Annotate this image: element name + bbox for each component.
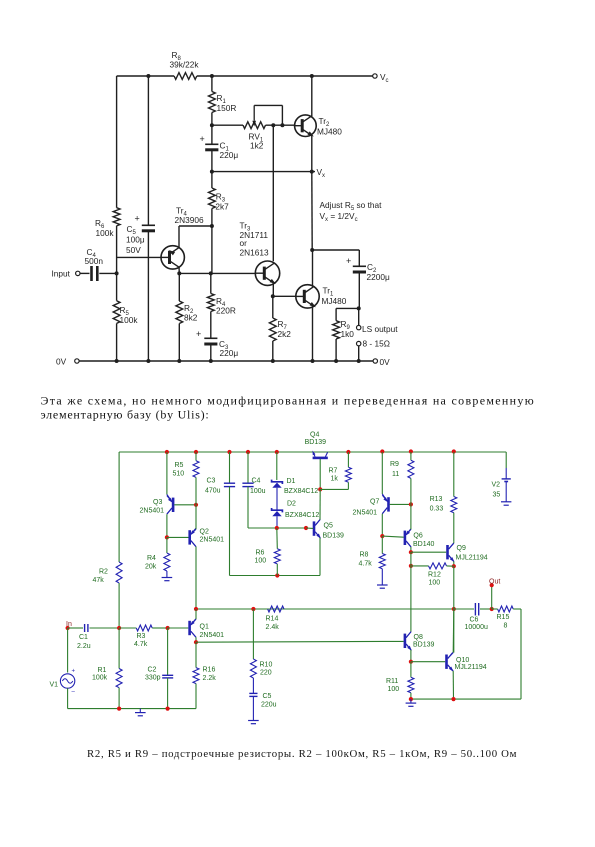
svg-text:R13: R13 [430,496,443,503]
wire: left rail R6 to input node [116,226,118,301]
capacitor C3 220u [210,312,212,338]
node: R5 top junction [194,450,198,454]
zener D2 BZX84C12 [272,508,283,512]
potentiometer RV1 1k2 [243,122,266,129]
transistor Tr2 MJ480 [295,115,317,137]
svg-text:C1: C1 [79,634,88,641]
node: R3/C2/Q1-base junction [166,626,170,630]
resistor R13 0.33 [453,452,455,497]
svg-text:100: 100 [388,686,400,693]
svg-text:Input: Input [52,269,71,279]
resistor R4 220R [210,273,212,293]
wire: R1 vertical [211,76,213,92]
wire: Tr1 collector up to Vx line [312,250,314,287]
svg-text:R11: R11 [386,678,398,685]
terminal LS output - [357,341,361,345]
svg-text:MJL21194: MJL21194 [456,555,488,562]
svg-text:470u: 470u [205,488,221,495]
node: R9 bottom / Q7 base / Q6 emitter [409,502,413,506]
svg-text:BZX84C12: BZX84C12 [284,488,318,495]
wire: Vx rail [212,171,315,173]
svg-text:элементарную базу (by Ulis):: элементарную базу (by Ulis): [41,407,210,421]
node: RV1/Tr2-base junction [280,123,284,127]
terminal 0V left [75,359,79,363]
node: Q1 collector junction [194,607,198,611]
svg-text:R15: R15 [497,614,510,621]
wire: Q5 emitter down to rail [319,538,321,576]
svg-text:Q2: Q2 [200,529,209,536]
svg-text:2N5401: 2N5401 [140,508,165,515]
source V1 sine [67,628,69,673]
wire: left rail R5 to 0V [116,323,118,361]
node: D1 top junction [275,450,279,454]
wire: Q7 base to R9 node [390,503,411,505]
svg-text:MJL21194: MJL21194 [455,664,487,671]
wire: C4 bottom to D2 rail [248,527,306,529]
resistor R5 510 (trimmer) [195,452,197,461]
node: R1/R2/C1 junction [117,626,121,630]
wire: C4 to input node [99,272,116,274]
svg-text:11: 11 [392,471,399,478]
svg-text:4.7k: 4.7k [359,561,373,568]
wire: Tr4 emitter up and right [178,226,180,248]
node: C2/R9/LS junction [357,306,361,310]
transistor Q5 BD139 [313,521,316,535]
wire: Q6 collector to Q9 base node [410,547,412,552]
wire: Q1 collector up [195,609,197,619]
transistor Q9 MJL21194 [446,545,449,559]
svg-text:MJ480: MJ480 [317,127,342,137]
svg-text:R1: R1 [98,667,107,674]
svg-text:1k2: 1k2 [250,141,264,151]
svg-text:2200μ: 2200μ [367,272,390,282]
node: Tr1 emitter junction [311,359,315,363]
svg-text:C2: C2 [148,667,157,674]
node: R2 bottom junction [177,359,181,363]
resistor R1 100k [118,628,120,669]
capacitor C2 330p [167,628,169,675]
terminal LS output + [357,325,361,329]
svg-text:4.7k: 4.7k [134,641,148,648]
ground below bottom-left rail [139,709,141,713]
svg-text:2N5401: 2N5401 [200,537,225,544]
svg-text:V2: V2 [492,482,501,489]
svg-text:R12: R12 [428,572,441,579]
svg-text:330p: 330p [145,675,161,682]
wire: LS output lower lead [358,346,360,361]
svg-text:0V: 0V [56,357,67,367]
wire: Q2 collector down to Q1 collector node [195,547,197,609]
svg-text:0V: 0V [380,357,391,367]
wire: Vc top rail [117,75,175,77]
svg-text:Vc: Vc [380,72,389,84]
svg-text:Vx: Vx [317,167,326,179]
wire: bottom-left ground rail [68,708,196,710]
wire: RV1 left lead [212,124,243,126]
wire: Q1 emitter down [195,637,197,642]
wire: Q10 collector up to output node [452,609,455,653]
wire: Tr1 base line [273,295,296,297]
resistor R14 2.4k [268,606,284,612]
svg-text:100: 100 [255,558,267,565]
wire: top rail corner to V2 [505,452,507,468]
wire: R15 wrap to bottom rail [520,609,522,699]
svg-text:D1: D1 [287,478,296,485]
node: R4 top junction [209,271,213,275]
node: In corner [66,626,70,630]
svg-text:Q5: Q5 [324,523,333,530]
wire: Tr4 base line [117,256,162,258]
svg-text:+: + [196,329,201,339]
wire: Tr3 emitter to node [272,283,274,296]
svg-text:47k: 47k [93,577,105,584]
node: RV1/Tr3-collector junction [271,123,275,127]
resistor R2 8k2 [178,273,180,301]
resistor R3 2k7 [211,172,213,188]
svg-text:Q6: Q6 [413,532,422,539]
ground below R11 [410,699,412,703]
svg-text:8: 8 [504,623,508,630]
svg-text:Q1: Q1 [200,624,209,631]
svg-text:100μ: 100μ [126,235,145,245]
node: Q3 emitter rail junction [165,450,169,454]
zener D1 BZX84C12 [272,480,283,484]
wire: Q4 base stub [319,459,321,490]
transistor Tr4 2N3906 [161,246,184,269]
wire: Q3 emitter drop [166,452,168,495]
wire: Q3 base to R5 node [174,504,196,506]
svg-text:Эта же схема, но немного модиф: Эта же схема, но немного модифицированна… [41,393,535,407]
svg-text:R5: R5 [175,462,184,469]
capacitor C5 220u [252,678,254,693]
wire: R9 top lead [336,307,359,309]
node: C2 bottom junction [166,707,170,711]
capacitor C3 470u [229,452,231,483]
node: LS- junction [357,359,361,363]
svg-text:BD139: BD139 [413,642,435,649]
node: R7 top junction [346,450,350,454]
node: Q7 emitter rail junction [380,449,384,453]
svg-text:BZX84C12: BZX84C12 [285,512,319,519]
node: Tr2 collector junction [310,74,314,78]
svg-text:35: 35 [493,492,501,499]
wire: Q8 base row [196,640,404,643]
wire: Q3 collector to Q2 base node [166,514,168,537]
svg-text:50V: 50V [126,245,141,255]
node: R9 top junction [409,449,413,453]
ground below V2 [501,501,511,503]
transistor Q8 BD139 [404,634,407,648]
resistor R15 8 [498,606,514,612]
svg-text:R2, R5 и R9 – подстроечные рез: R2, R5 и R9 – подстроечные резисторы. R2… [87,748,517,760]
svg-text:2k2: 2k2 [278,329,292,339]
svg-text:220μ: 220μ [220,348,239,358]
svg-text:R10: R10 [260,662,273,669]
resistor R12 100 [411,565,429,567]
node: R13 top junction [452,449,456,453]
node: C4 top junction [246,450,250,454]
svg-text:2N5401: 2N5401 [200,632,225,639]
node: Q1 emitter / R16 / Q8 base row [194,640,198,644]
resistor R6 100 [276,528,279,549]
wire: to Q1 base [168,627,189,629]
resistor R6 100k [113,208,120,226]
svg-text:220μ: 220μ [220,150,239,160]
terminal input [76,271,80,275]
node: R9 bottom junction [334,359,338,363]
wire: input to C4 [80,272,90,274]
transistor Q7 2N5401 [387,497,390,511]
svg-text:R8: R8 [360,552,369,559]
capacitor C1 220u [211,125,213,143]
capacitor C2 2200u [353,265,366,267]
svg-text:2.2k: 2.2k [203,675,217,682]
wire: R12 node down to Q8 collector [410,566,412,632]
svg-text:510: 510 [173,471,185,478]
wire: 0V bottom rail [79,360,373,362]
wire: Tr4 collector to node [178,267,180,274]
svg-text:Q4: Q4 [310,432,319,439]
resistor R9 1k0 [335,308,337,320]
node: C3 bottom junction [209,359,213,363]
svg-text:D2: D2 [287,501,296,508]
capacitor C5 100u 50V [142,224,155,226]
wire: C2 bottom to LS node [358,272,360,308]
capacitor C1 2.2u [84,624,86,632]
svg-text:20k: 20k [145,564,157,571]
wire: Out stub [491,586,493,609]
svg-text:R3: R3 [137,633,146,640]
svg-text:BD140: BD140 [413,541,435,548]
wire: LS output upper lead [358,308,360,325]
node: Out junction [490,607,494,611]
wire: Q10 emitter down [452,671,454,699]
node: R1 top junction [210,74,214,78]
wire: RV1 to Tr3 collector [272,125,274,261]
svg-text:Q7: Q7 [370,499,379,506]
capacitor C4 500n [90,266,93,281]
wire: R2 to In row [118,583,120,628]
node: Vx left junction [210,170,214,174]
node: R5 bottom junction [115,359,119,363]
transistor Q10 MJL21194 [445,655,448,669]
wire: Tr2 emitter to Vx rail [311,135,313,172]
svg-text:150R: 150R [217,103,237,113]
wire: Tr4 collector node to Tr3 base [179,272,255,274]
svg-text:Q3: Q3 [153,499,162,506]
svg-text:LS output: LS output [362,324,398,334]
transistor Q6 BD140 [404,531,407,545]
node: R5 bottom / Q3 base / Q2 emitter [194,503,198,507]
wire: V1 bottom to rail [67,688,69,708]
node: R3/Tr4-emitter junction [210,224,214,228]
svg-text:R4: R4 [147,555,156,562]
svg-text:R6: R6 [256,550,265,557]
node: Q8 emitter / R11 / Q10 base [409,660,413,664]
svg-text:100k: 100k [92,675,108,682]
svg-text:2.2u: 2.2u [77,643,91,650]
resistor R11 100 [410,662,412,678]
wire: Q5 collector up to Q4 base node [319,489,321,519]
node: D2 bottom junction [275,526,279,530]
svg-text:39k/22k: 39k/22k [170,60,200,70]
battery V2 35 [505,468,507,479]
node: C5 bottom junction [146,359,150,363]
resistor R7 1k [347,452,349,467]
svg-text:C5: C5 [263,693,272,700]
svg-text:–: – [72,690,76,696]
svg-text:+: + [135,214,140,224]
wire: In row left [68,627,83,629]
node: C5 rail top junction [146,74,150,78]
svg-text:2N3906: 2N3906 [175,215,204,225]
wire: Q10 base row [411,661,445,663]
svg-text:R2: R2 [99,569,108,576]
wire: Q9 base node to R12 node [410,552,412,566]
capacitor C6 10000u [454,608,474,610]
svg-text:Q9: Q9 [457,545,466,552]
svg-text:R7: R7 [329,468,338,475]
svg-text:8 - 15Ω: 8 - 15Ω [363,339,390,349]
svg-text:MJ480: MJ480 [322,296,347,306]
svg-text:2k7: 2k7 [215,202,229,212]
node: Q6 collector / Q9 base junction [409,550,413,554]
wire: R3 node down to R4 node [211,226,213,273]
svg-text:100k: 100k [120,315,139,325]
resistor R3 4.7k [119,627,136,629]
capacitor C4 100u [247,452,249,483]
svg-text:+: + [72,669,76,675]
svg-text:1k: 1k [331,476,339,483]
svg-text:Out: Out [489,579,500,586]
transistor Q3 2N5401 [172,498,175,512]
wire: Q7 emitter drop [381,452,383,494]
svg-text:C6: C6 [470,617,479,624]
svg-text:or: or [240,238,248,248]
terminal 0V right [373,359,377,363]
svg-text:220: 220 [260,670,272,677]
wire: left rail down to R2 [118,452,120,562]
svg-text:8k2: 8k2 [184,313,198,323]
ground below R4 [166,571,168,574]
node: R11 bottom junction [409,697,413,701]
node: Tr3-emitter/R7/Tr1-base junction [271,294,275,298]
svg-text:2N5401: 2N5401 [353,510,378,517]
svg-text:V1: V1 [50,682,59,689]
node: Q3 collector / Q2 base / R4 junction [165,535,169,539]
svg-text:+: + [200,134,205,144]
wire: Q7 collector down to Q6 base node [381,514,383,536]
svg-text:100k: 100k [96,228,115,238]
resistor R8 4.7k [381,536,383,553]
node: Q10 emitter junction [451,697,455,701]
svg-text:220u: 220u [261,702,277,709]
node: Tr4 collector junction [177,271,181,275]
resistor R8 39k/22k [174,73,197,80]
node: R12 left junction [409,564,413,568]
transistor Q1 2N5401 [188,621,191,635]
wire: D1 to D2 [276,488,278,510]
svg-text:100u: 100u [250,488,266,495]
resistor R2 47k (trimmer) [116,562,122,583]
svg-text:BD139: BD139 [305,439,327,446]
wire: C2 branch top [312,249,359,251]
wire: Q9 emitter to R12 node [453,561,455,566]
svg-text:1k0: 1k0 [341,329,355,339]
svg-text:2.4k: 2.4k [266,624,280,631]
node: Q9em/Q10col/output junction [452,607,456,611]
resistor R1 150R [209,92,216,113]
node: Out marker [490,583,494,587]
wire: C3/R6/Q5 emitter rail [230,575,321,577]
wire: R7 bottom to Q4 base node [320,488,348,490]
wire: RV1 right lead [266,124,295,126]
transistor Tr1 MJ480 [296,285,319,308]
svg-text:C3: C3 [207,478,216,485]
node: R1 bottom junction [117,707,121,711]
transistor Q4 BD139 [313,457,328,460]
wire: RV1 wiper loop [254,104,282,106]
svg-text:0.33: 0.33 [430,506,444,513]
resistor R7 2k2 [272,296,274,318]
svg-text:Vx = 1/2Vc: Vx = 1/2Vc [320,211,358,223]
svg-text:100: 100 [429,580,441,587]
wire: Q6 emitter up to R9 node [410,504,412,529]
node: R1/C1/RV1 junction [210,123,214,127]
svg-text:R9: R9 [390,461,399,468]
terminal Vc [373,74,377,78]
transistor Tr3 2N1711/2N1613 [255,261,279,285]
wire: left rail upper (Vc corner to R6) [116,76,118,208]
resistor R5 100k [113,301,120,324]
ground below C5 [252,717,254,721]
svg-text:C4: C4 [252,478,261,485]
wire: V+ top rail [119,451,506,453]
wire: output row from Q1 collector to C6 [196,608,454,610]
svg-text:2N1613: 2N1613 [240,248,269,258]
node: Q7 collector / Q6 base / R8 junction [380,534,384,538]
node: Q5 base junction [304,526,308,530]
wire: Q2 emitter up to R5 node [195,505,197,529]
svg-text:Q8: Q8 [414,634,423,641]
node: Vx right junction [310,170,314,174]
resistor R10 220 [252,609,254,659]
wire: Tr1 emitter to 0V [312,306,314,361]
node: input/R5/R6 junction [115,271,119,275]
wire: D2 bottom lead [276,516,278,528]
wire: Q8 emitter to R11 node [410,650,412,662]
wire: D1 top lead [276,452,278,480]
wire: C5 rail lower [147,231,149,361]
resistor R9 11 (trimmer) [410,452,412,460]
wire: Tr2 collector to Vc rail [311,76,313,117]
node: Q9 emitter / R12 right junction [452,564,456,568]
wire: Q9 collector up to R13 [453,541,455,543]
svg-text:R16: R16 [203,667,216,674]
svg-text:Q10: Q10 [456,657,469,664]
resistor R4 20k [166,537,168,553]
node: Q4 base / R7 / Q5 collector [318,487,322,491]
svg-text:10000u: 10000u [465,624,488,631]
wire: Q9 emitter down to Q10 collector [453,566,455,652]
wire: C5 rail upper [147,76,149,225]
svg-text:500n: 500n [85,256,104,266]
svg-text:+: + [346,256,351,266]
node: C2 branch junction [310,248,314,252]
node: R10 top junction [251,607,255,611]
resistor R16 2.2k [195,642,197,667]
node: C3 top junction [227,450,231,454]
